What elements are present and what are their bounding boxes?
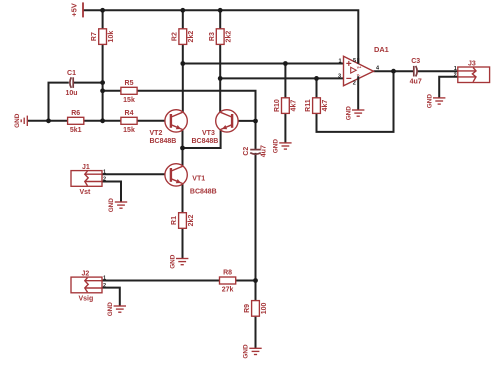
svg-text:5k1: 5k1 [70,127,82,134]
svg-text:3: 3 [338,73,341,79]
svg-text:R11: R11 [305,99,312,112]
svg-text:VT3: VT3 [202,130,215,137]
svg-text:GND: GND [14,113,21,128]
svg-text:R8: R8 [223,270,232,277]
svg-text:100: 100 [261,302,268,314]
svg-text:4k7: 4k7 [291,100,298,112]
svg-text:VT2: VT2 [150,130,163,137]
svg-text:27k: 27k [222,287,234,294]
svg-text:BC848B: BC848B [190,188,217,195]
svg-text:1: 1 [103,169,106,175]
svg-text:2k2: 2k2 [226,31,233,43]
svg-text:R2: R2 [171,32,178,41]
svg-text:C1: C1 [67,70,76,77]
svg-text:4u7: 4u7 [410,79,422,86]
svg-text:2k2: 2k2 [188,31,195,43]
svg-text:10u: 10u [65,90,77,97]
svg-text:1: 1 [103,276,106,282]
svg-text:2k2: 2k2 [188,215,195,227]
svg-text:BC848B: BC848B [192,138,219,145]
svg-text:C2: C2 [243,147,250,156]
svg-text:Vsig: Vsig [79,296,94,303]
svg-text:J2: J2 [82,271,90,278]
svg-text:R9: R9 [244,304,251,313]
svg-text:J3: J3 [468,60,476,67]
svg-text:15k: 15k [123,97,135,104]
svg-text:4k7: 4k7 [322,100,329,112]
svg-text:J1: J1 [82,164,90,171]
svg-text:Vst: Vst [80,189,92,196]
svg-text:R3: R3 [209,32,216,41]
svg-text:10k: 10k [108,31,115,43]
svg-text:2: 2 [353,81,356,87]
svg-text:5: 5 [353,58,356,64]
svg-text:R10: R10 [274,99,281,112]
svg-text:R6: R6 [71,110,80,117]
svg-text:R7: R7 [91,32,98,41]
svg-text:2: 2 [103,283,106,289]
svg-text:VT1: VT1 [192,175,205,182]
svg-text:C3: C3 [411,58,420,65]
svg-text:15k: 15k [123,127,135,134]
svg-text:1: 1 [454,66,457,72]
svg-text:+5V: +5V [70,3,79,16]
svg-text:2: 2 [454,73,457,79]
svg-text:4u7: 4u7 [261,145,268,157]
svg-text:R5: R5 [125,80,134,87]
svg-text:v+: v+ [357,65,362,70]
svg-text:BC848B: BC848B [150,138,177,145]
svg-text:1: 1 [339,58,342,64]
svg-text:R4: R4 [125,110,134,117]
svg-text:DA1: DA1 [374,45,389,54]
svg-text:2: 2 [103,177,106,183]
svg-text:R1: R1 [171,216,178,225]
